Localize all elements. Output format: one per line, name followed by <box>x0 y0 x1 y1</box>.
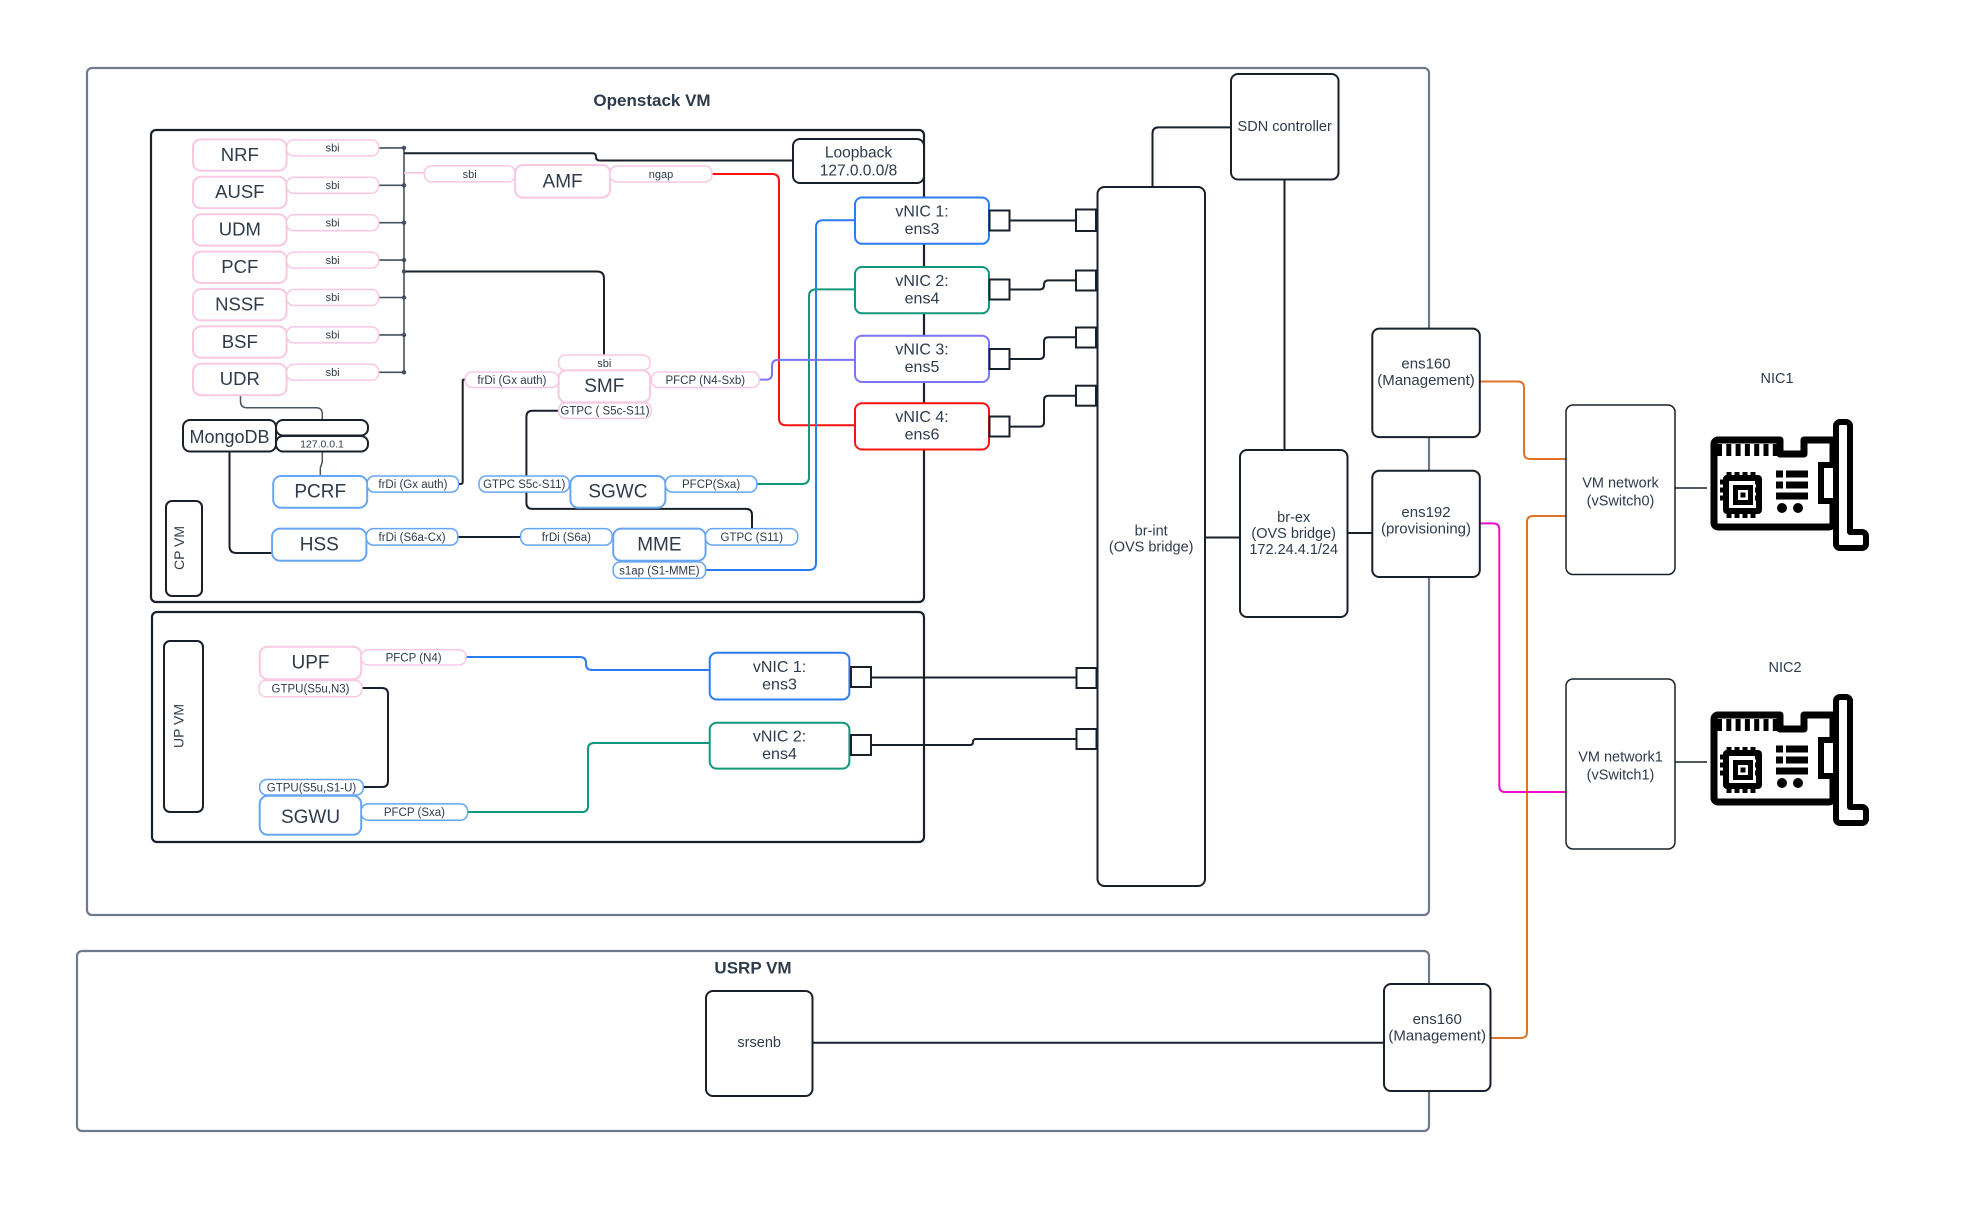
svg-text:(OVS bridge): (OVS bridge) <box>1251 526 1336 542</box>
wire sbi stub PCF <box>379 259 404 261</box>
label sbi (AUSF) <box>287 177 379 193</box>
port br-int 4 <box>1076 386 1096 406</box>
label GTPU(S5u,N3) <box>259 680 362 696</box>
svg-text:ens6: ens6 <box>905 427 940 444</box>
wire bus to AMF sbi <box>404 172 424 174</box>
label frDi (Gx auth) (SMF) <box>465 372 558 388</box>
wire VM network1 to NIC2 <box>1675 761 1707 763</box>
wire sbi stub NRF <box>379 147 404 149</box>
label s1ap (S1-MME) <box>613 562 705 579</box>
container Openstack VM <box>87 68 1429 915</box>
box SDN controller <box>1231 74 1339 180</box>
wire ens192 to VM network1 (magenta) <box>1479 523 1566 792</box>
svg-text:sbi: sbi <box>326 180 340 192</box>
wire sbi stub BSF <box>379 334 404 336</box>
svg-text:sbi: sbi <box>326 255 340 267</box>
svg-text:Loopback: Loopback <box>825 144 892 161</box>
port vNIC1 (CP) <box>990 211 1010 231</box>
label PFCP(Sxa) <box>665 476 756 492</box>
wire frDi (S6a-Cx) to frDi (S6a) <box>458 536 521 538</box>
wire vNIC3 to br-int <box>1010 337 1077 359</box>
svg-text:vNIC 2:: vNIC 2: <box>895 273 948 290</box>
svg-text:br-int: br-int <box>1135 524 1168 540</box>
box SGWC <box>570 476 665 508</box>
wire vNIC1 to br-int <box>1010 220 1077 222</box>
svg-text:ens160: ens160 <box>1413 1011 1462 1028</box>
label sbi (NRF) <box>287 140 379 156</box>
svg-text:UDR: UDR <box>220 368 260 389</box>
wire PFCP (Sxa) to UP vNIC2 (teal) <box>468 743 710 812</box>
wire VM network to USRP ens160 (orange) <box>1488 516 1566 1038</box>
port br-int 3 <box>1076 328 1096 348</box>
svg-text:PCF: PCF <box>221 256 258 277</box>
box 127.0.0.1 <box>276 436 368 452</box>
box SGWU <box>260 796 362 835</box>
box vNIC 1: ens3 (UP) <box>710 653 850 700</box>
svg-text:127.0.0.0/8: 127.0.0.0/8 <box>820 162 898 179</box>
svg-text:MME: MME <box>637 534 681 555</box>
wire ngap to vNIC4 (red) <box>712 174 855 425</box>
box ens160 (Management) USRP <box>1384 984 1491 1091</box>
svg-text:NSSF: NSSF <box>215 293 264 314</box>
label UP VM <box>164 641 203 812</box>
box Loopback <box>793 139 924 183</box>
wire GTPU(S5u,N3) to GTPU(S5u,S1-U) <box>362 688 388 787</box>
label sbi (NSSF) <box>287 290 379 306</box>
svg-text:ens4: ens4 <box>762 746 797 763</box>
svg-text:frDi (S6a): frDi (S6a) <box>542 532 591 544</box>
port UP vNIC2 <box>851 735 871 755</box>
box vNIC 4: ens6 (CP) <box>855 403 989 449</box>
svg-text:(Management): (Management) <box>1377 372 1475 389</box>
svg-text:frDi (Gx auth): frDi (Gx auth) <box>477 375 546 387</box>
wire br-int to br-ex <box>1205 537 1240 539</box>
svg-text:sbi: sbi <box>326 367 340 379</box>
svg-text:ens3: ens3 <box>762 676 797 693</box>
svg-text:ngap: ngap <box>649 169 673 181</box>
box vNIC 3: ens5 (CP) <box>855 336 989 382</box>
svg-text:NIC2: NIC2 <box>1768 660 1801 676</box>
svg-text:GTPU(S5u,N3): GTPU(S5u,N3) <box>272 684 350 696</box>
label sbi (PCF) <box>287 252 379 268</box>
box NRF <box>193 139 287 170</box>
label sbi (AMF) <box>424 166 515 182</box>
label ngap <box>610 166 712 182</box>
svg-text:vNIC 3:: vNIC 3: <box>895 342 948 359</box>
container USRP VM <box>77 951 1429 1131</box>
svg-text:sbi: sbi <box>326 292 340 304</box>
wire sbi stub UDR <box>379 371 404 373</box>
label frDi (S6a-Cx) <box>366 529 457 546</box>
port br-int 2 <box>1076 271 1096 291</box>
port vNIC4 (CP) <box>990 417 1010 437</box>
svg-text:vNIC 1:: vNIC 1: <box>895 204 948 221</box>
label GTPU(S5u,S1-U) <box>260 780 364 796</box>
box UPF <box>260 647 362 680</box>
label PFCP (N4-Sxb) <box>651 372 759 388</box>
svg-text:(vSwitch1): (vSwitch1) <box>1587 768 1655 784</box>
svg-text:sbi: sbi <box>463 169 477 181</box>
label GTPC ( S5c-S11) <box>559 403 652 419</box>
wire bus to SMF sbi <box>404 272 604 356</box>
box br-ex (OVS bridge) <box>1240 450 1348 617</box>
wire ens160 to VM network (orange) <box>1479 382 1566 460</box>
container UP VM <box>152 612 924 842</box>
svg-text:ens192: ens192 <box>1401 504 1450 521</box>
wire VM network to NIC1 <box>1675 487 1707 489</box>
wire sbi stub AUSF <box>379 184 404 186</box>
svg-text:frDi (S6a-Cx): frDi (S6a-Cx) <box>379 532 446 544</box>
box UDM <box>193 214 287 245</box>
box ens192 (provisioning) <box>1372 471 1480 577</box>
wire sbi stub UDM <box>379 222 404 224</box>
wire SDN controller to br-ex <box>1284 179 1286 450</box>
svg-text:UPF: UPF <box>292 653 330 674</box>
box br-int (OVS bridge) <box>1098 187 1206 886</box>
port br-int UP2 <box>1077 729 1097 749</box>
wire SMF frDi to PCRF frDi <box>459 380 466 484</box>
port br-int 1 <box>1076 210 1096 232</box>
svg-text:frDi (Gx auth): frDi (Gx auth) <box>378 479 447 491</box>
svg-text:SDN controller: SDN controller <box>1238 119 1332 135</box>
svg-text:srsenb: srsenb <box>737 1035 781 1051</box>
label PFCP (Sxa) <box>361 804 467 820</box>
svg-text:PCRF: PCRF <box>294 482 346 503</box>
svg-text:NRF: NRF <box>221 144 259 165</box>
svg-text:GTPC (S11): GTPC (S11) <box>720 532 783 544</box>
box ens160 (Management) <box>1372 329 1480 438</box>
port vNIC2 (CP) <box>990 280 1010 300</box>
box PCF <box>193 252 287 283</box>
svg-text:AUSF: AUSF <box>215 181 264 202</box>
svg-text:GTPC S5c-S11): GTPC S5c-S11) <box>483 479 565 491</box>
port UP vNIC1 <box>851 667 871 687</box>
icon NIC2 card <box>1714 697 1866 823</box>
svg-text:USRP VM: USRP VM <box>714 959 791 978</box>
label sbi (UDM) <box>287 215 379 231</box>
wire br-ex to ens192 <box>1347 532 1372 534</box>
svg-text:(OVS bridge): (OVS bridge) <box>1109 540 1194 556</box>
wire sbi stub NSSF <box>379 297 404 299</box>
wire UP vNIC1 to br-int <box>871 677 1077 679</box>
svg-text:NIC1: NIC1 <box>1760 371 1793 387</box>
wire SDN controller to br-int <box>1153 127 1232 187</box>
label sbi (BSF) <box>287 327 379 343</box>
svg-text:GTPC ( S5c-S11): GTPC ( S5c-S11) <box>560 406 649 418</box>
box vNIC 1: ens3 (CP) <box>855 198 989 244</box>
box MongoDB <box>183 420 276 452</box>
svg-text:VM network: VM network <box>1582 476 1659 492</box>
box NSSF <box>193 289 287 320</box>
wire vNIC4 to br-int <box>1010 396 1077 427</box>
box MME <box>613 529 705 561</box>
box vNIC 2: ens4 (UP) <box>710 723 850 769</box>
svg-text:PFCP (Sxa): PFCP (Sxa) <box>384 807 445 819</box>
box VM network (vSwitch0) <box>1566 405 1675 575</box>
wire 127.0.0.1 to PCRF (grey) <box>320 452 322 477</box>
svg-text:VM network1: VM network1 <box>1578 750 1663 766</box>
svg-text:sbi: sbi <box>326 143 340 155</box>
svg-text:(Management): (Management) <box>1388 1027 1486 1044</box>
svg-text:SGWU: SGWU <box>281 807 340 828</box>
label GTPC (S11) <box>706 529 798 546</box>
svg-text:MongoDB: MongoDB <box>189 427 269 447</box>
icon NIC1 card <box>1714 422 1866 548</box>
svg-text:vNIC 2:: vNIC 2: <box>753 729 806 746</box>
box srsenb <box>706 991 813 1096</box>
wire PFCP (N4) to UP vNIC1 (blue) <box>466 657 710 670</box>
svg-text:ens160: ens160 <box>1401 356 1450 373</box>
svg-text:(vSwitch0): (vSwitch0) <box>1587 494 1655 510</box>
wire UP vNIC2 to br-int <box>871 739 1077 745</box>
container CP VM <box>151 130 924 602</box>
wire PFCP(Sxa) to vNIC2 (teal) <box>757 289 855 484</box>
label sbi (UDR) <box>287 364 379 380</box>
svg-text:ens3: ens3 <box>905 221 940 238</box>
svg-text:vNIC 4:: vNIC 4: <box>895 409 948 426</box>
svg-text:BSF: BSF <box>222 331 258 352</box>
label PFCP (N4) <box>361 650 466 665</box>
box UDR <box>193 364 287 395</box>
svg-text:PFCP (N4-Sxb): PFCP (N4-Sxb) <box>665 375 745 387</box>
label sbi (SMF) <box>559 355 651 371</box>
svg-text:sbi: sbi <box>326 217 340 229</box>
svg-text:127.0.0.1: 127.0.0.1 <box>300 439 344 451</box>
box AMF <box>515 165 610 198</box>
port br-int UP1 <box>1077 668 1097 688</box>
label frDi (Gx auth) (PCRF) <box>367 476 458 492</box>
svg-text:br-ex: br-ex <box>1277 510 1311 526</box>
label CP VM <box>166 501 202 596</box>
svg-text:s1ap (S1-MME): s1ap (S1-MME) <box>619 565 700 577</box>
svg-text:Openstack VM: Openstack VM <box>593 91 710 110</box>
wire UDR to 127.0.0.1 (grey) <box>241 395 323 420</box>
svg-text:sbi: sbi <box>326 330 340 342</box>
svg-text:172.24.4.1/24: 172.24.4.1/24 <box>1249 542 1338 558</box>
wire SMF GTPC to SGWC GTPC <box>526 411 558 476</box>
box 127.0.0.1 (top) <box>276 420 368 436</box>
wire srsenb to USRP ens160 <box>812 1042 1384 1044</box>
box SMF <box>559 370 651 402</box>
svg-text:AMF: AMF <box>543 171 583 192</box>
wire vNIC2 to br-int <box>1010 280 1077 289</box>
wire PFCP(N4-Sxb) to vNIC3 (indigo) <box>759 360 855 380</box>
svg-text:GTPU(S5u,S1-U): GTPU(S5u,S1-U) <box>267 782 357 794</box>
wire SGWC to MME GTPC (S11) <box>526 492 752 528</box>
box VM network1 (vSwitch1) <box>1566 679 1675 849</box>
svg-text:SGWC: SGWC <box>588 482 647 503</box>
svg-text:UP VM: UP VM <box>171 704 187 748</box>
svg-text:UDM: UDM <box>219 219 261 240</box>
svg-text:HSS: HSS <box>300 534 339 555</box>
label frDi (S6a) <box>521 529 612 546</box>
svg-text:sbi: sbi <box>597 358 611 370</box>
port vNIC3 (CP) <box>990 349 1010 369</box>
box PCRF <box>273 476 367 508</box>
box BSF <box>193 326 287 357</box>
svg-text:ens4: ens4 <box>905 291 940 308</box>
box AUSF <box>193 177 287 208</box>
svg-text:ens5: ens5 <box>905 359 940 376</box>
box vNIC 2: ens4 (CP) <box>855 267 989 313</box>
label GTPC S5c-S11) <box>479 476 569 492</box>
svg-text:(provisioning): (provisioning) <box>1381 520 1471 537</box>
wire s1ap to vNIC1 (blue) <box>706 220 855 570</box>
svg-text:PFCP (N4): PFCP (N4) <box>386 652 442 664</box>
svg-text:SMF: SMF <box>584 376 624 397</box>
wire bus to Loopback <box>404 153 793 160</box>
box HSS <box>272 529 366 561</box>
wire sbi bus vertical <box>403 146 405 372</box>
svg-text:PFCP(Sxa): PFCP(Sxa) <box>682 479 740 491</box>
svg-text:CP VM: CP VM <box>171 526 187 570</box>
svg-text:vNIC 1:: vNIC 1: <box>753 659 806 676</box>
wire MongoDB to HSS <box>230 452 273 554</box>
